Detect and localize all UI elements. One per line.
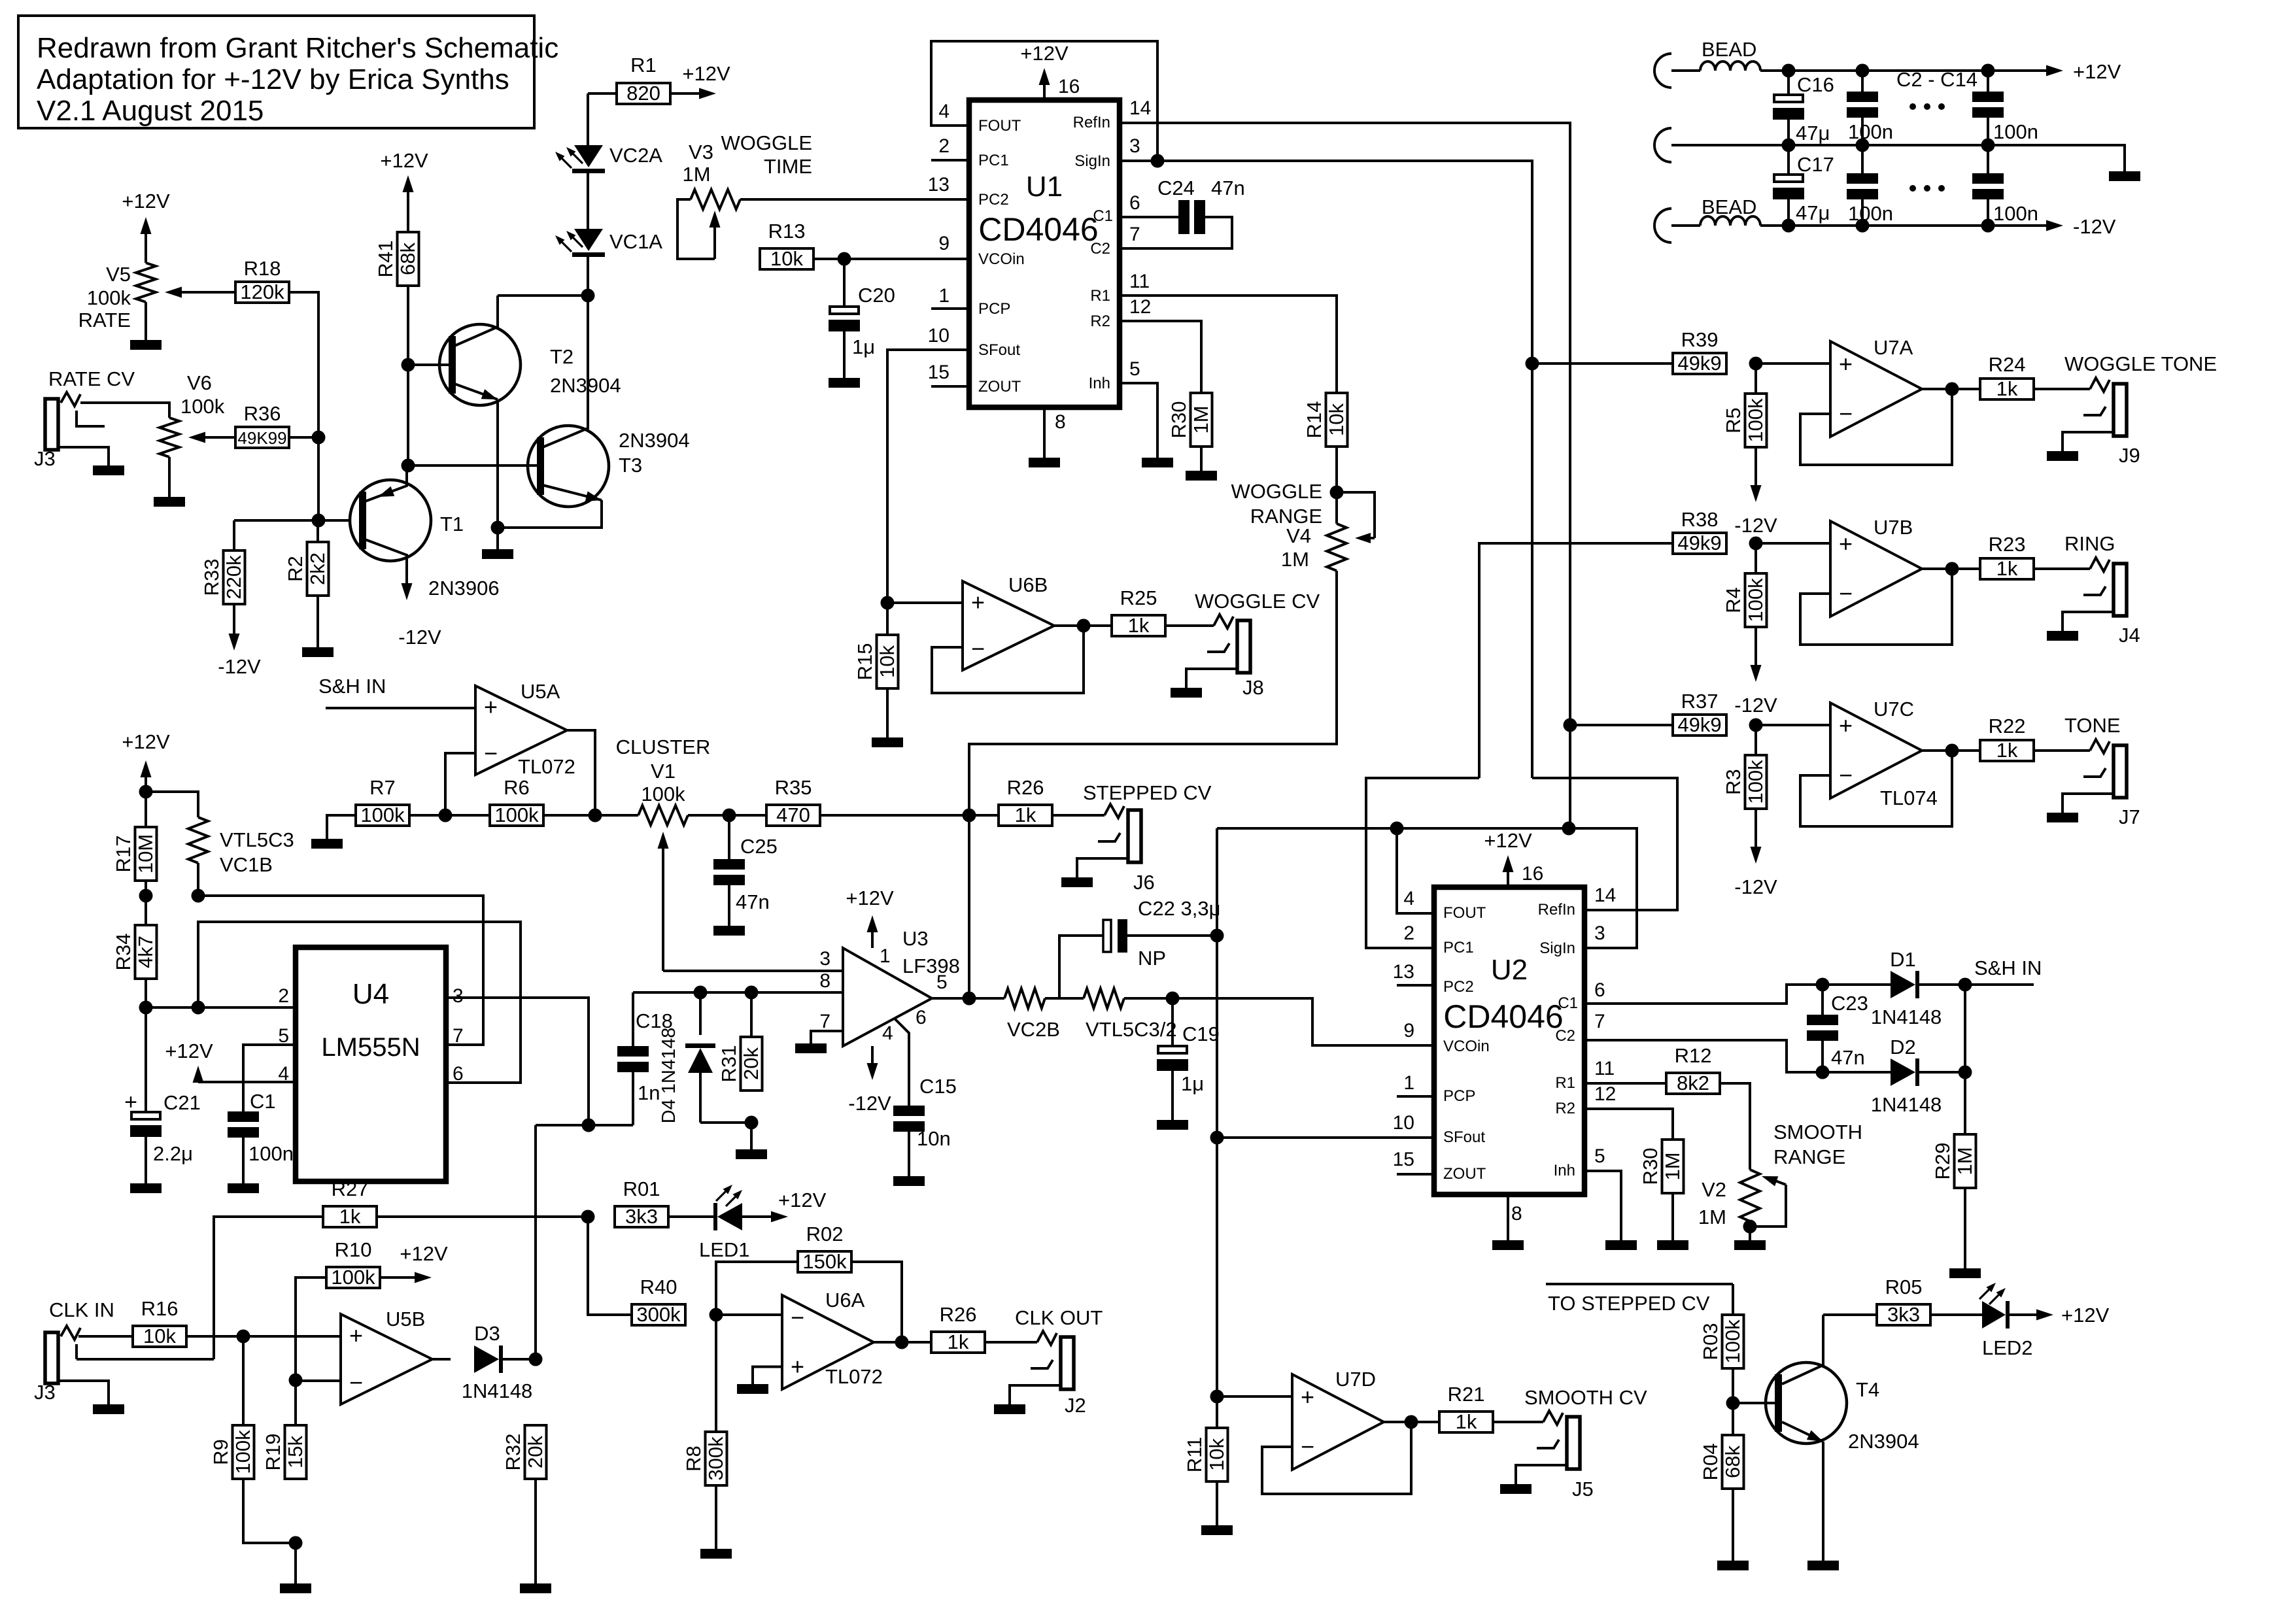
svg-text:C15: C15 (919, 1075, 957, 1098)
svg-text:3k3: 3k3 (625, 1205, 658, 1228)
svg-text:100k: 100k (180, 395, 225, 418)
svg-text:+12V: +12V (380, 149, 428, 172)
capacitor C16 47u (1773, 71, 1834, 145)
svg-text:10: 10 (1393, 1112, 1414, 1134)
node RefIn column joins rail (1562, 822, 1576, 836)
svg-text:U5A: U5A (521, 680, 560, 703)
capacitor 100n (top row b) (1972, 71, 2038, 145)
wire R12 to V2 (1720, 1083, 1750, 1170)
svg-text:CD4046: CD4046 (1443, 998, 1563, 1035)
svg-text:C21: C21 (163, 1091, 201, 1114)
svg-text:8: 8 (819, 970, 830, 992)
resistor R15 10k (853, 603, 899, 688)
svg-text:RATE CV: RATE CV (48, 367, 135, 390)
svg-text:U6B: U6B (1008, 573, 1048, 596)
wire R14 to V4 (1335, 447, 1338, 492)
node D4 top (694, 986, 708, 1000)
node pin3 join (582, 1119, 596, 1132)
jack J3 CLK IN (34, 1326, 109, 1404)
svg-text:RATE: RATE (78, 309, 131, 331)
resistor R18 120k (235, 257, 289, 303)
node R37 input (1564, 719, 1577, 732)
resistor R25 1k (1112, 586, 1165, 637)
ground (R30 U2) (1671, 1193, 1674, 1240)
resistor R04 68k (1699, 1403, 1744, 1489)
svg-text:2: 2 (278, 985, 289, 1007)
V5 wiper arrow from R18 (165, 287, 235, 298)
svg-text:STEPPED CV: STEPPED CV (1083, 781, 1212, 804)
wire V4 bottom to stepped node (969, 571, 1337, 815)
svg-text:R3: R3 (1722, 769, 1745, 795)
svg-text:VTL5C3: VTL5C3 (220, 828, 294, 851)
node R01/R40 (581, 1210, 595, 1224)
node S&H IN (1959, 978, 1972, 992)
svg-text:R21: R21 (1448, 1383, 1485, 1406)
svg-text:1M: 1M (1281, 548, 1309, 571)
svg-text:49k9: 49k9 (1677, 352, 1721, 375)
svg-text:100n: 100n (1993, 202, 2038, 225)
wire U3 pin8 row (633, 991, 843, 994)
U2 PCP stub (1397, 1095, 1434, 1098)
svg-text:WOGGLE TONE: WOGGLE TONE (2064, 352, 2217, 375)
svg-text:TL074: TL074 (1880, 787, 1938, 809)
svg-text:−: − (1301, 1433, 1314, 1460)
resistor R9 100k (209, 1336, 254, 1479)
U2 SigIn rail (1217, 828, 1637, 948)
svg-text:VC1A: VC1A (609, 230, 662, 253)
svg-text:R05: R05 (1885, 1276, 1923, 1298)
wire base row T1 (234, 519, 361, 522)
node R9 top (237, 1330, 250, 1344)
capacitor C15 10n (893, 1075, 957, 1176)
wire R27 node to R40 (588, 1217, 632, 1315)
svg-text:TONE: TONE (2064, 714, 2121, 737)
svg-text:100k: 100k (231, 1430, 254, 1474)
U2 C2 wire to D2 (1584, 1040, 1891, 1072)
LED LED2 (1930, 1283, 2033, 1359)
resistor R8 300k (682, 1315, 727, 1485)
svg-text:1k: 1k (1996, 377, 2018, 400)
svg-text:−: − (1839, 580, 1853, 607)
wire V3 right to U1 PC2 (740, 198, 969, 201)
diode D2 1N4148 (1871, 1036, 1965, 1116)
node LED column (581, 289, 595, 303)
svg-text:U7A: U7A (1874, 336, 1913, 359)
svg-text:C24: C24 (1157, 177, 1195, 199)
U2 pin16 +12V arrow (1484, 829, 1543, 887)
resistor R26 1k (stepped) (969, 776, 1052, 826)
svg-text:2: 2 (1403, 922, 1414, 944)
svg-text:100k: 100k (641, 783, 685, 805)
wire T4 collector to R05 (1823, 1313, 1877, 1316)
svg-text:4: 4 (1403, 888, 1414, 909)
svg-text:CLK OUT: CLK OUT (1015, 1306, 1103, 1329)
U2 pin8 ground (1492, 1194, 1524, 1250)
svg-text:+12V: +12V (165, 1040, 213, 1062)
svg-text:820: 820 (626, 82, 660, 105)
svg-text:C16: C16 (1797, 73, 1834, 96)
label S&H IN (diodes) (1965, 956, 2042, 985)
svg-text:12: 12 (1129, 296, 1151, 318)
svg-text:BEAD: BEAD (1702, 38, 1756, 61)
svg-text:C19: C19 (1182, 1023, 1220, 1045)
node STEPPED CV (963, 809, 976, 822)
svg-text:R13: R13 (768, 220, 806, 243)
jack J4 RING (2034, 558, 2140, 647)
photoresistor VTL5C3 VC1B (146, 792, 294, 896)
U4 pin4 wire +12V (165, 1040, 296, 1083)
svg-text:10k: 10k (770, 247, 803, 270)
svg-text:1M: 1M (1190, 405, 1212, 433)
transistor T4 2N3904 (1733, 1315, 1919, 1561)
svg-text:−: − (1839, 400, 1853, 427)
svg-text:R04: R04 (1699, 1444, 1722, 1481)
wire R16 to U5B+ (186, 1335, 341, 1338)
node SFout row (1210, 1131, 1224, 1145)
op-amp U7C (1756, 698, 1980, 826)
svg-text:Inh: Inh (1089, 375, 1110, 392)
svg-text:47n: 47n (1211, 177, 1245, 199)
svg-text:1k: 1k (948, 1330, 969, 1353)
svg-text:R11: R11 (1183, 1437, 1206, 1473)
wire stepped node to U3 output (968, 815, 970, 998)
-12V rail (1760, 215, 2116, 238)
ground (J3 rate) (93, 465, 124, 475)
resistor R38 49k9 (1673, 508, 1726, 554)
svg-text:VCOin: VCOin (978, 250, 1025, 268)
svg-text:68k: 68k (1721, 1446, 1744, 1478)
svg-text:VC2B: VC2B (1007, 1018, 1060, 1041)
+12V rail (1760, 60, 2121, 83)
svg-text:1μ: 1μ (1181, 1072, 1204, 1095)
svg-text:J3: J3 (34, 447, 56, 470)
svg-text:T3: T3 (619, 454, 642, 477)
op-amp U3 LF398 (819, 927, 960, 1046)
photoresistor VTL5C3/2 (1045, 989, 1177, 1041)
node R9/R19 bottom (289, 1536, 303, 1550)
svg-text:J8: J8 (1242, 676, 1264, 699)
ground (C21) (130, 1183, 162, 1193)
svg-text:10k: 10k (143, 1325, 176, 1347)
svg-text:+12V: +12V (122, 730, 170, 753)
svg-text:1k: 1k (339, 1205, 361, 1228)
svg-text:J2: J2 (1065, 1394, 1086, 1417)
node C19 top (1166, 992, 1180, 1006)
resistor R10 100k (296, 1238, 380, 1380)
label CLUSTER V1 100k (616, 736, 711, 805)
svg-text:-12V: -12V (398, 626, 441, 649)
U1 PCP stub (931, 307, 969, 310)
label WOGGLE TIME (721, 131, 812, 178)
op-amp U5A (326, 680, 595, 815)
wire 555 pin6 loop (198, 922, 521, 1083)
node D3 out (529, 1353, 543, 1366)
svg-text:R19: R19 (262, 1434, 284, 1471)
svg-text:47n: 47n (736, 890, 770, 913)
jack J2 CLK OUT (985, 1331, 1086, 1417)
svg-text:15k: 15k (284, 1436, 307, 1468)
svg-text:U2: U2 (1491, 954, 1528, 986)
wire R9 bottom (243, 1479, 296, 1543)
svg-text:100k: 100k (1744, 398, 1767, 443)
svg-text:V3: V3 (689, 141, 713, 163)
svg-text:C20: C20 (858, 284, 895, 307)
svg-text:C2 - C14: C2 - C14 (1896, 68, 1977, 91)
svg-text:−: − (1839, 762, 1853, 788)
ground (R8) (715, 1485, 717, 1549)
svg-text:PC1: PC1 (978, 152, 1009, 169)
svg-text:R2: R2 (284, 556, 307, 582)
svg-text:FOUT: FOUT (978, 117, 1021, 135)
svg-text:13: 13 (928, 174, 950, 195)
svg-text:R40: R40 (640, 1276, 677, 1298)
svg-text:1n: 1n (638, 1081, 660, 1104)
U1 pin16 +12V arrow (1020, 42, 1080, 100)
svg-text:D4 1N4148: D4 1N4148 (659, 1028, 679, 1124)
node U7A output (1945, 382, 1959, 396)
wire R18 to node column (289, 292, 318, 520)
op-amp U7A (1756, 336, 1980, 465)
ground (C25) (713, 926, 745, 936)
svg-text:R22: R22 (1989, 715, 2026, 737)
svg-text:3k3: 3k3 (1887, 1303, 1920, 1326)
svg-text:V1: V1 (651, 760, 676, 783)
potentiometer V2 1M SMOOTH RANGE (1698, 1170, 1786, 1240)
svg-text:+: + (971, 589, 985, 616)
resistor R01 3k3 (615, 1177, 668, 1228)
U3 output wire (932, 997, 1004, 1000)
svg-text:2N3906: 2N3906 (428, 577, 500, 600)
svg-text:1N4148: 1N4148 (1871, 1006, 1942, 1028)
capacitor C22 3,3u NP (1059, 897, 1220, 998)
svg-text:5: 5 (936, 972, 948, 993)
ferrite bead 2 (1671, 216, 1760, 226)
U1 PC1 stub (931, 159, 969, 161)
node R40/R02/R8 (710, 1308, 723, 1322)
transistor T3 2N3904 (408, 296, 690, 528)
wire T2 collector to LED column (498, 294, 588, 297)
node C22/SigIn rail (1210, 929, 1224, 943)
svg-text:R02: R02 (806, 1223, 844, 1245)
svg-text:R10: R10 (335, 1238, 372, 1261)
wire R38 input from PC1/RefIn rail (1479, 543, 1673, 778)
svg-text:+: + (1839, 530, 1853, 557)
svg-text:R17: R17 (112, 836, 135, 873)
U3 pin3 wire (663, 970, 843, 972)
U1 FOUT loop to SigIn (931, 41, 1157, 161)
svg-text:R38: R38 (1681, 508, 1719, 531)
svg-text:CLUSTER: CLUSTER (616, 736, 711, 758)
capacitor 100n (top row a) (1847, 71, 1893, 145)
capacitor C24 47n (1120, 177, 1245, 248)
svg-text:1: 1 (938, 285, 950, 307)
svg-text:100n: 100n (1848, 120, 1893, 143)
node U7C output (1945, 744, 1959, 758)
svg-text:R8: R8 (682, 1446, 705, 1472)
node R36/R18 junction (312, 431, 326, 445)
ground (V6) (154, 457, 185, 507)
U1 Inh wire to ground (1120, 383, 1173, 467)
svg-text:11: 11 (1594, 1058, 1615, 1079)
U1 pin8 ground (1029, 407, 1060, 467)
svg-text:3: 3 (819, 948, 830, 970)
resistor R4 100k (1722, 543, 1767, 627)
svg-text:VTL5C3/2: VTL5C3/2 (1086, 1018, 1177, 1041)
svg-text:S&H IN: S&H IN (318, 675, 386, 698)
svg-text:10k: 10k (1325, 403, 1348, 436)
svg-text:C25: C25 (740, 835, 778, 858)
svg-text:R34: R34 (112, 934, 135, 971)
resistor R26 1k (clk out) (931, 1303, 985, 1353)
svg-text:T2: T2 (550, 345, 573, 368)
+12V arrow (R10) (380, 1242, 448, 1283)
resistor R02 150k (716, 1223, 851, 1315)
svg-text:+12V: +12V (1484, 829, 1532, 852)
wire R37 input from RefIn column (1570, 724, 1673, 726)
resistor R7 100k (327, 776, 409, 839)
svg-text:2.2μ: 2.2μ (153, 1142, 193, 1165)
svg-text:LED2: LED2 (1982, 1336, 2033, 1359)
svg-text:100n: 100n (1993, 120, 2038, 143)
svg-text:U7D: U7D (1335, 1368, 1376, 1391)
ground (R04) (1732, 1489, 1734, 1561)
wire D4/R31 bottoms (700, 1121, 751, 1124)
svg-text:T4: T4 (1856, 1378, 1879, 1401)
svg-text:PC2: PC2 (1443, 978, 1474, 996)
transistor T2 2N3904 (408, 296, 621, 528)
svg-text:U1: U1 (1026, 171, 1063, 203)
wire SigIn column to R39 (1532, 362, 1673, 365)
svg-text:VC1B: VC1B (220, 853, 273, 876)
transistor T1 2N3906 (350, 465, 500, 649)
ground (R30) (1200, 447, 1203, 471)
capacitor 100n (bottom row a) (1847, 145, 1893, 226)
photoresistor VC2B (1004, 989, 1060, 1041)
U1 SigIn wire right (1120, 161, 1532, 778)
node T4 base (1726, 1396, 1740, 1410)
svg-text:D3: D3 (474, 1322, 500, 1345)
svg-text:100k: 100k (331, 1266, 375, 1289)
label SMOOTH RANGE (1773, 1121, 1862, 1168)
ground (R11) (1216, 1481, 1218, 1525)
dots C2-C14 bottom (1909, 185, 1916, 192)
wire pin3 row to C18/D3 column (536, 1124, 633, 1126)
svg-text:47μ: 47μ (1796, 201, 1830, 224)
U2 R2 wire to R30 (1584, 1109, 1673, 1140)
svg-text:CD4046: CD4046 (978, 211, 1098, 248)
svg-text:3: 3 (1594, 922, 1605, 944)
U1 R1 wire to R14 (1120, 296, 1337, 393)
svg-text:1k: 1k (1456, 1410, 1477, 1433)
node pin2/pin6 join (192, 1001, 205, 1015)
node U6B output (1077, 619, 1091, 633)
svg-text:PCP: PCP (1443, 1087, 1475, 1105)
resistor R14 10k (1303, 393, 1348, 447)
node R38 output (1749, 537, 1763, 550)
svg-text:R35: R35 (775, 776, 812, 799)
jack J5 SMOOTH CV (1494, 1411, 1594, 1500)
ground (R9/R19) (294, 1543, 297, 1583)
wire U2 SFout (1217, 1136, 1434, 1139)
svg-text:3: 3 (453, 985, 464, 1007)
svg-text:V5: V5 (106, 263, 131, 286)
svg-text:C1: C1 (250, 1090, 276, 1113)
capacitor C21 2.2u (124, 1007, 201, 1183)
svg-text:R16: R16 (141, 1297, 179, 1320)
svg-text:47μ: 47μ (1796, 122, 1830, 144)
ground (T2/T3 emitters) (496, 528, 499, 549)
svg-text:R37: R37 (1681, 690, 1719, 713)
wire R36 to node column (289, 436, 318, 439)
U2 FOUT loop (1397, 828, 1434, 913)
resistor R30 1M (U2) (1639, 1140, 1684, 1193)
resistor R21 1k (1439, 1383, 1493, 1433)
ground (R31) (750, 1123, 753, 1149)
diode D3 1N4148 (462, 1322, 536, 1402)
ground (R15) (886, 688, 889, 737)
svg-text:7: 7 (453, 1025, 464, 1047)
svg-text:1M: 1M (1953, 1147, 1976, 1175)
svg-text:R30: R30 (1167, 401, 1190, 439)
svg-text:WOGGLE: WOGGLE (721, 131, 812, 154)
svg-text:D2: D2 (1890, 1036, 1916, 1058)
svg-text:R30: R30 (1639, 1148, 1662, 1185)
svg-text:LED1: LED1 (699, 1238, 750, 1261)
ground (T4 emitter) (1807, 1561, 1839, 1570)
svg-text:10M: 10M (134, 834, 157, 873)
svg-text:10k: 10k (876, 645, 899, 678)
-12V arrow (R33) (218, 604, 261, 678)
wire R02 to U6A out (851, 1262, 902, 1342)
node R39 input (1526, 357, 1539, 371)
node U7D out (1405, 1415, 1418, 1429)
svg-text:U7C: U7C (1874, 698, 1914, 720)
svg-text:100n: 100n (1848, 202, 1893, 225)
node U7B output (1945, 562, 1959, 576)
svg-text:LF398: LF398 (902, 955, 960, 977)
svg-text:2N3904: 2N3904 (1848, 1430, 1919, 1453)
svg-text:+12V: +12V (2061, 1304, 2110, 1327)
resistor R03 100k (1699, 1284, 1744, 1368)
svg-text:TL072: TL072 (825, 1365, 883, 1388)
svg-text:2: 2 (938, 135, 950, 157)
node R37 output (1749, 719, 1763, 732)
resistor R3 100k (1722, 725, 1767, 809)
svg-text:TIME: TIME (764, 155, 812, 178)
svg-text:Redrawn from Grant Ritcher's S: Redrawn from Grant Ritcher's Schematic (37, 32, 558, 64)
svg-text:J9: J9 (2119, 444, 2140, 467)
svg-text:+12V: +12V (1020, 42, 1069, 65)
svg-text:R9: R9 (209, 1439, 232, 1465)
ground (R7) (311, 839, 343, 849)
resistor R22 1k (1980, 715, 2034, 762)
svg-text:C23: C23 (1831, 992, 1868, 1015)
svg-text:2N3904: 2N3904 (619, 429, 690, 452)
svg-text:C2: C2 (1555, 1027, 1575, 1045)
svg-text:R32: R32 (502, 1434, 524, 1471)
svg-text:SigIn: SigIn (1539, 939, 1575, 957)
resistor R33 220k (200, 520, 245, 604)
svg-text:+12V: +12V (2073, 60, 2121, 83)
svg-text:100k: 100k (1721, 1319, 1744, 1364)
U3 pin1 +12V arrow (846, 887, 894, 948)
svg-text:SMOOTH: SMOOTH (1773, 1121, 1862, 1143)
node T2/T3 emitter join (491, 521, 505, 535)
svg-text:10n: 10n (917, 1127, 951, 1150)
ground (C1) (228, 1183, 259, 1193)
node U6A out (895, 1336, 909, 1349)
svg-text:2N3904: 2N3904 (550, 374, 621, 397)
